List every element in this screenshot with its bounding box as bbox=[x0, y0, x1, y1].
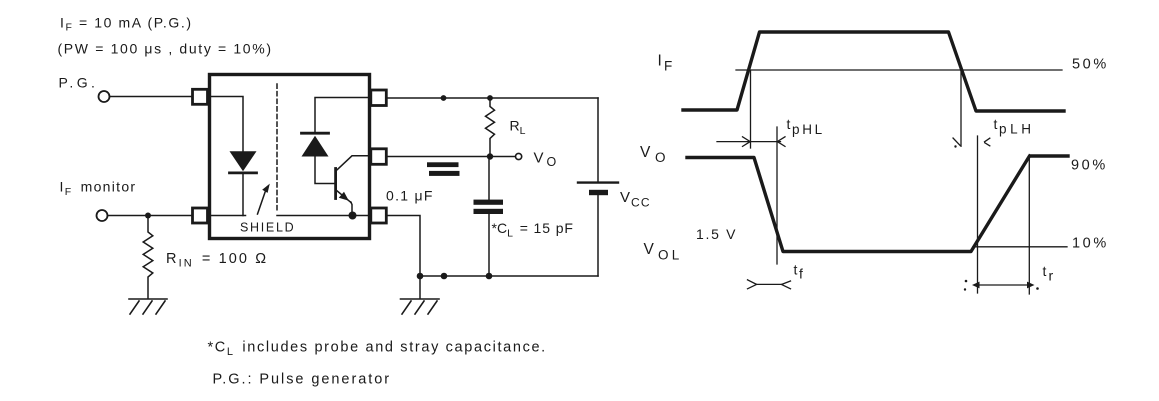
node junction at RIN top bbox=[145, 213, 151, 219]
label 0.1 uF bbox=[386, 188, 434, 204]
LED D1 cathode bar bbox=[230, 171, 257, 174]
svg-text:0.1 μF: 0.1 μF bbox=[386, 188, 434, 204]
pin cathode (left bottom) bbox=[193, 208, 208, 223]
transistor Q1 collector bbox=[336, 156, 371, 171]
svg-text:pLH: pLH bbox=[999, 122, 1035, 137]
svg-text:90%: 90% bbox=[1071, 158, 1108, 174]
wire shield/emitter to GND pin bbox=[277, 215, 371, 217]
note CL includes probe and stray capacitance bbox=[208, 340, 547, 359]
pin output (right middle) bbox=[371, 149, 387, 165]
shield dashed line bbox=[276, 84, 278, 213]
svg-text:OL: OL bbox=[658, 248, 682, 263]
svg-text:t: t bbox=[794, 262, 798, 278]
wire ground stub bbox=[419, 276, 421, 299]
resistor RIN bbox=[143, 216, 153, 299]
label tr bbox=[1043, 263, 1054, 284]
transistor Q1 base bar bbox=[334, 169, 337, 199]
optocoupler package U1 bbox=[210, 75, 370, 239]
svg-text:r: r bbox=[1049, 268, 1054, 284]
transistor Q1 emitter bbox=[336, 190, 351, 202]
wire LED cathode down bbox=[242, 174, 244, 215]
label RL bbox=[510, 118, 526, 138]
wire GND pin to bottom rail bbox=[386, 216, 420, 277]
svg-text:SHIELD: SHIELD bbox=[240, 221, 295, 235]
svg-text:t: t bbox=[1043, 263, 1047, 279]
10% level line bbox=[973, 246, 1067, 248]
label tf bbox=[794, 262, 804, 282]
svg-text:CC: CC bbox=[631, 196, 651, 210]
tf measure arrows bbox=[748, 280, 757, 284]
label RIN = 100 ohm bbox=[166, 251, 268, 270]
node RL top bbox=[487, 95, 493, 101]
waveform IF bbox=[683, 32, 1064, 111]
tpHL right boundary bbox=[776, 127, 778, 264]
pin GND (right bottom) bbox=[371, 208, 387, 223]
wire bottom rail bbox=[420, 275, 598, 277]
label tpHL bbox=[787, 116, 825, 137]
LED D1 triangle bbox=[230, 151, 257, 171]
50% level line bbox=[736, 69, 1062, 71]
label VCC bbox=[620, 189, 651, 210]
wire VO stub bbox=[490, 156, 515, 158]
svg-text:t: t bbox=[994, 116, 998, 132]
label VO (waveform) bbox=[640, 144, 666, 165]
battery VCC bbox=[597, 98, 599, 181]
tpHL left boundary bbox=[750, 71, 752, 149]
label 10% bbox=[1072, 236, 1109, 252]
label 90% bbox=[1071, 158, 1108, 174]
ground (RIN) bbox=[129, 299, 167, 314]
node bypass cap top bbox=[441, 95, 447, 101]
capacitor 0.1uF plates bbox=[427, 162, 459, 167]
svg-text:P.G.: P.G. bbox=[59, 75, 99, 91]
wire P.G. to anode pin bbox=[110, 96, 193, 98]
tpLH left boundary bbox=[960, 71, 962, 147]
svg-text:*CL includes probe and stray c: *CL includes probe and stray capacitance… bbox=[208, 340, 547, 359]
tr right boundary bbox=[1028, 155, 1030, 295]
photodiode D2 cathode bar bbox=[302, 132, 329, 135]
label VO (circuit) bbox=[534, 150, 557, 170]
label SHIELD bbox=[240, 221, 295, 235]
svg-text:V: V bbox=[644, 241, 655, 258]
node CL bottom bbox=[486, 273, 493, 280]
label tpLH bbox=[994, 116, 1035, 137]
svg-text:O: O bbox=[655, 150, 666, 165]
label IF = 10 mA (P.G.) bbox=[60, 15, 193, 34]
label (PW = 100 us, duty = 10%) bbox=[58, 41, 273, 57]
svg-text:10%: 10% bbox=[1072, 236, 1109, 252]
svg-text:P.G.: Pulse generator: P.G.: Pulse generator bbox=[213, 372, 392, 388]
svg-text:t: t bbox=[787, 116, 791, 132]
note P.G.: Pulse generator bbox=[213, 372, 392, 388]
svg-text:(PW = 100 μs , duty = 10%): (PW = 100 μs , duty = 10%) bbox=[58, 41, 273, 57]
pin Vcc side (right top) bbox=[371, 90, 387, 106]
svg-text:50%: 50% bbox=[1072, 57, 1109, 73]
waveform VO bbox=[687, 156, 1068, 252]
wire Vcc pin to photodiode bbox=[315, 98, 371, 133]
label 50% bbox=[1072, 57, 1109, 73]
terminal P.G. input bbox=[99, 91, 110, 102]
pin anode (left top) bbox=[193, 89, 208, 104]
tpLH right boundary bbox=[977, 136, 979, 293]
tpHL measure line with arrows bbox=[717, 141, 781, 143]
label P.G. bbox=[59, 75, 99, 91]
svg-text:V: V bbox=[534, 150, 544, 167]
capacitor CL bbox=[488, 157, 490, 200]
resistor RL bbox=[486, 98, 495, 157]
node bypass cap bottom bbox=[441, 273, 448, 280]
label IF monitor bbox=[60, 179, 137, 199]
svg-text:V: V bbox=[620, 189, 630, 206]
label VOL bbox=[644, 241, 683, 263]
svg-text:O: O bbox=[547, 155, 557, 169]
terminal VO bbox=[516, 153, 522, 159]
label IF (waveform) bbox=[658, 53, 673, 74]
shield arrow bbox=[258, 188, 267, 214]
label *CL = 15 pF bbox=[492, 220, 574, 240]
photodiode D2 triangle bbox=[302, 136, 329, 157]
svg-text:f: f bbox=[799, 266, 803, 282]
node VO bbox=[487, 153, 493, 159]
wire anode pin to LED bbox=[208, 97, 244, 152]
svg-text:pHL: pHL bbox=[792, 122, 825, 137]
wire Vcc rail bbox=[386, 97, 598, 99]
node bottom rail left bbox=[417, 273, 424, 280]
wire photodiode to transistor base bbox=[315, 157, 335, 184]
svg-text:I: I bbox=[658, 53, 662, 70]
wire output pin to VO node bbox=[386, 156, 490, 158]
node emitter junction bbox=[349, 212, 357, 220]
ground (output) bbox=[401, 299, 440, 314]
terminal IF monitor bbox=[97, 210, 108, 221]
svg-text:F: F bbox=[664, 59, 672, 74]
wire cathode pin to LED bbox=[208, 215, 246, 217]
svg-text:V: V bbox=[640, 144, 651, 161]
wire IF monitor to cathode pin bbox=[108, 215, 193, 217]
label 1.5 V bbox=[696, 226, 737, 242]
svg-text:1.5 V: 1.5 V bbox=[696, 226, 737, 242]
tr measure line with arrows bbox=[978, 284, 1030, 286]
